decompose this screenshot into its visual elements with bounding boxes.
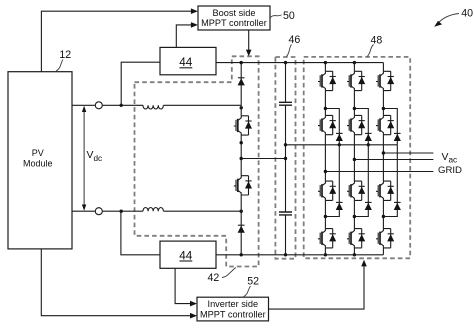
IGBT Q13 with antiparallel diode (leg 3 top inner) [376, 115, 394, 134]
IGBT Q6 with antiparallel diode (leg 1 bottom inner) [318, 181, 336, 200]
junction dot DC- at capacitor [284, 253, 287, 256]
gate drive wire inverter MPPT to box 48 [269, 260, 367, 309]
terminal circle bottom [95, 208, 102, 215]
junction dot leg 3 node A [382, 107, 385, 110]
IGBT Q11 with antiparallel diode (leg 2 bottom outer) [347, 229, 365, 248]
wire phase output leg 3 [383, 152, 433, 154]
junction dot DC+ at leg 1 [324, 61, 327, 64]
boost side MPPT controller box 50 [198, 6, 270, 30]
junction dot leg 2 node A [353, 107, 356, 110]
wire clamp column leg 3 upper [383, 109, 397, 145]
gate drive wire boost MPPT to box 42 [246, 30, 252, 56]
IGBT Q9 with antiparallel diode (leg 2 top inner) [347, 115, 365, 134]
wire inverter leg 3 vertical [382, 63, 384, 255]
svg-text:GRID: GRID [438, 165, 462, 176]
wire sensor 44 bottom to inverter MPPT controller [175, 268, 197, 306]
IGBT Q15 with antiparallel diode (leg 3 bottom outer) [376, 229, 394, 248]
svg-text:Module: Module [23, 159, 53, 169]
junction dot boost midpoint tap [240, 157, 243, 160]
leader line for 52 [244, 286, 251, 297]
leader line for 46 [286, 45, 291, 57]
boost diode D1 [238, 78, 245, 86]
wire inverter leg 1 vertical [324, 63, 326, 255]
junction dot leg 2 node B [353, 215, 356, 218]
IGBT Q5 with antiparallel diode (leg 1 top inner) [318, 115, 336, 134]
IGBT Q12 with antiparallel diode (leg 3 top outer) [376, 71, 394, 90]
junction dot DC+ at leg 2 [353, 61, 356, 64]
Vdc measurement arrow [82, 106, 86, 211]
junction dot negative rail tap [120, 210, 123, 213]
svg-text:40: 40 [461, 7, 473, 19]
svg-text:Inverter side: Inverter side [208, 299, 259, 309]
junction dot leg 1 node A [324, 107, 327, 110]
wire phase output leg 1 [325, 171, 433, 173]
figure pointer arrow 40 [434, 14, 459, 27]
clamp diode leg 2 upper [365, 133, 372, 141]
inverter side MPPT controller box 52 [197, 297, 269, 321]
IGBT Q14 with antiparallel diode (leg 3 bottom inner) [376, 181, 394, 200]
svg-text:46: 46 [289, 34, 301, 46]
junction dot DC+ at boost chain [240, 61, 243, 64]
junction dot DC+ at capacitor [284, 61, 287, 64]
clamp diode leg 3 lower [394, 202, 401, 210]
junction dot DC- at boost chain [240, 253, 243, 256]
leader line for 12 [56, 60, 63, 72]
clamp diode leg 1 upper [336, 133, 343, 141]
wire capacitor branch [285, 63, 287, 255]
svg-text:Boost side: Boost side [213, 8, 256, 18]
junction dot phase tap leg 3 [382, 151, 385, 154]
svg-text:MPPT controller: MPPT controller [200, 309, 266, 319]
junction dot DC- at leg 1 [324, 253, 327, 256]
capacitor C1 [279, 102, 292, 105]
junction dot capacitor neutral [284, 143, 287, 146]
wire phase output leg 2 [354, 159, 433, 161]
wire clamp column leg 2 lower [354, 145, 368, 217]
wire PV bottom to inverter MPPT controller [41, 249, 197, 319]
junction dot phase tap leg 2 [353, 158, 356, 161]
sensor box 44 top [160, 47, 216, 74]
IGBT Q8 with antiparallel diode (leg 2 top outer) [347, 71, 365, 90]
capacitor C2 [279, 212, 292, 215]
junction dot boost chain mid [240, 141, 243, 144]
svg-text:MPPT controller: MPPT controller [201, 18, 267, 28]
svg-text:PV: PV [32, 148, 44, 158]
wire DC link positive rail [216, 62, 383, 64]
boost IGBT Q1 with antiparallel diode [234, 116, 252, 135]
leader line for 50 [271, 15, 282, 18]
terminal circle top [95, 102, 102, 109]
junction dot phase tap leg 1 [324, 170, 327, 173]
junction dot neutral at clamp column 2 [367, 143, 370, 146]
wire DC link negative rail [216, 254, 383, 256]
svg-text:12: 12 [59, 49, 71, 61]
IGBT Q10 with antiparallel diode (leg 2 bottom inner) [347, 181, 365, 200]
wire clamp column leg 2 upper [354, 109, 368, 145]
boost diode D2 [238, 225, 245, 233]
leader line for 48 [367, 45, 373, 57]
svg-text:48: 48 [371, 34, 383, 46]
wire inverter leg 2 vertical [353, 63, 355, 255]
svg-text:44: 44 [179, 249, 193, 262]
wire PV negative rail [72, 210, 143, 212]
wire boost chain vertical [240, 63, 242, 255]
junction dot leg 3 node B [382, 215, 385, 218]
svg-text:44: 44 [179, 56, 193, 69]
wire sensor 44 bottom left tap [121, 211, 160, 255]
junction dot neutral at clamp column 1 [338, 143, 341, 146]
clamp diode leg 1 lower [336, 202, 343, 210]
wire clamp column leg 1 upper [325, 109, 339, 145]
clamp diode leg 3 upper [394, 133, 401, 141]
junction dot DC- at leg 2 [353, 253, 356, 256]
wire inductor L1 to boost switch node [164, 104, 242, 106]
svg-text:50: 50 [283, 10, 295, 22]
clamp diode leg 2 lower [365, 202, 372, 210]
boost converter dashed box 42 [135, 56, 259, 266]
leader line for 42 [222, 268, 236, 278]
wire PV positive rail [72, 104, 143, 106]
IGBT Q7 with antiparallel diode (leg 1 bottom outer) [318, 229, 336, 248]
DC link dashed box 46 [275, 57, 295, 259]
sensor box 44 bottom [160, 241, 216, 268]
wire sensor 44 top to boost MPPT controller [176, 22, 198, 47]
junction dot top rail tap [120, 104, 123, 107]
inverter dashed box 48 [304, 57, 411, 258]
IGBT Q4 with antiparallel diode (leg 1 top outer) [318, 71, 336, 90]
PV module box 12 [8, 72, 72, 249]
boost inductor L1 [143, 105, 163, 109]
boost inductor L2 [143, 207, 163, 211]
wire inductor L2 to boost bottom switch node [164, 210, 242, 212]
wire PV top to boost MPPT controller [41, 8, 198, 71]
junction dot boost bottom switch node [240, 210, 243, 213]
junction dot capacitor midpoint tap [284, 157, 287, 160]
boost IGBT Q2 with antiparallel diode [234, 176, 252, 195]
svg-text:52: 52 [247, 276, 259, 288]
wire sensor 44 top left tap to DC rail [121, 62, 160, 105]
junction dot leg 1 node B [324, 215, 327, 218]
wire neutral to clamp diodes [286, 144, 398, 146]
wire boost midpoint to capacitor midpoint [241, 158, 285, 160]
junction dot boost top switch node [240, 106, 243, 109]
wire clamp column leg 1 lower [325, 145, 339, 217]
svg-text:42: 42 [208, 272, 220, 284]
wire clamp column leg 3 lower [383, 145, 397, 217]
